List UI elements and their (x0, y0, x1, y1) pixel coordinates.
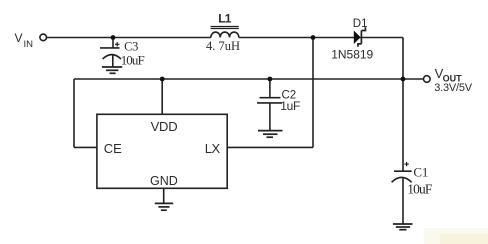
svg-text:1N5819: 1N5819 (331, 48, 373, 62)
svg-text:4. 7uH: 4. 7uH (206, 39, 240, 53)
svg-text:10uF: 10uF (407, 181, 433, 196)
svg-text:3.3V/5V: 3.3V/5V (434, 82, 473, 94)
svg-text:1uF: 1uF (280, 99, 300, 113)
svg-text:CE: CE (104, 141, 122, 156)
svg-text:C1: C1 (413, 164, 428, 179)
svg-text:V: V (15, 31, 23, 45)
svg-text:IN: IN (24, 39, 34, 50)
svg-text:L1: L1 (218, 12, 232, 26)
svg-text:LX: LX (205, 141, 221, 156)
svg-text:GND: GND (150, 174, 178, 188)
svg-text:10uF: 10uF (121, 52, 145, 67)
svg-text:D1: D1 (353, 18, 368, 30)
svg-text:VDD: VDD (151, 119, 178, 134)
